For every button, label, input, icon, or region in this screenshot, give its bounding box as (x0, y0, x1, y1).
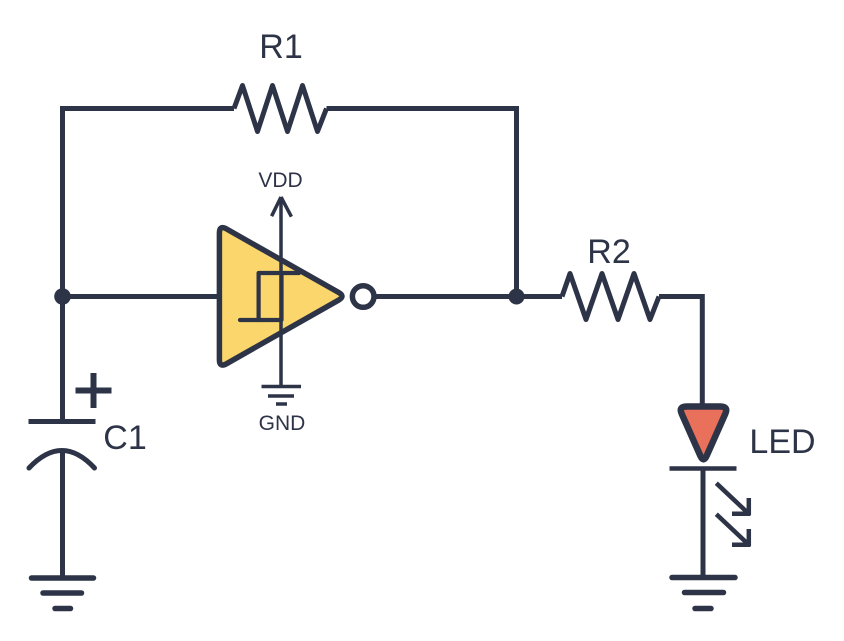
svg-text:R1: R1 (259, 28, 302, 66)
LED light arrow 2 (716, 514, 750, 546)
svg-text:C1: C1 (103, 419, 146, 457)
svg-text:LED: LED (749, 423, 815, 461)
wire: cathode to ground (701, 469, 706, 578)
C1 plus sign (76, 373, 112, 408)
ground (U1 GND pin) (262, 387, 302, 405)
wire: input wire from node A to inverter (63, 294, 220, 299)
wire: output bubble to node B (377, 294, 563, 299)
LED cathode bar (670, 466, 737, 471)
wire: top-left feedback loop (left segment to R1) (63, 109, 235, 422)
wire: R1 right to top-right corner, down to output node (327, 109, 517, 297)
wire: R2 to LED anode (659, 297, 702, 407)
LED light arrow 1 (716, 483, 750, 515)
svg-text:R2: R2 (587, 233, 630, 271)
resistor R1 (234, 86, 327, 132)
ground (below LED) (672, 578, 735, 609)
wire: C1 to ground (60, 451, 65, 578)
ground (below C1) (32, 578, 94, 609)
capacitor C1 (polarized) top plate (29, 419, 96, 424)
hysteresis symbol inside U1 (240, 273, 299, 320)
VDD supply arrow (272, 197, 292, 386)
LED D1 (diode triangle) (681, 407, 726, 460)
C1 curved bottom plate (29, 451, 95, 469)
node A (junction dot, left) (54, 288, 71, 305)
node B (junction dot, output) (509, 289, 525, 305)
op-amp U1 (Schmitt-trigger inverter triangle) (219, 228, 342, 365)
svg-text:VDD: VDD (258, 169, 302, 192)
svg-text:GND: GND (259, 412, 306, 435)
inverter output bubble (352, 286, 374, 308)
resistor R2 (562, 274, 659, 320)
